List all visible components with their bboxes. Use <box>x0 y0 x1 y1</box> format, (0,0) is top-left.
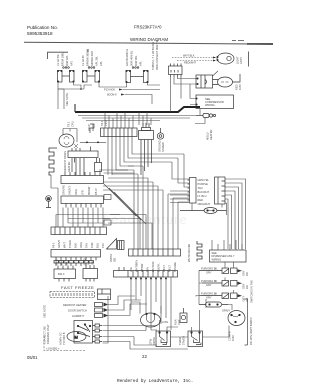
svg-text:6DON-6: 6DON-6 <box>107 93 117 97</box>
see dispenser assy wiring box <box>210 250 247 262</box>
svg-text:SEE NOTE: SEE NOTE <box>65 93 69 106</box>
svg-text:T8.1: T8.1 <box>67 121 71 127</box>
header publication text <box>27 25 58 36</box>
dome lamp assembly <box>217 53 234 64</box>
svg-text:WHTR DRIVER: WHTR DRIVER <box>187 244 191 262</box>
svg-text:BF5M 10BL: BF5M 10BL <box>61 52 65 66</box>
diagram corner bracket top-left <box>48 49 89 59</box>
vertical text SEE NOTE left of bus <box>65 93 69 106</box>
defrost heater label <box>63 151 71 172</box>
connector block B <box>139 123 154 175</box>
svg-text:B11 F: B11 F <box>58 272 65 276</box>
wire bundle strips to right column <box>108 137 184 176</box>
svg-text:ASSY: ASSY <box>239 57 243 64</box>
humidity control relay box <box>98 289 111 300</box>
control board box 2 labels <box>83 258 95 264</box>
lamp L1 labels <box>56 52 74 66</box>
svg-text:ORG/WHT: ORG/WHT <box>198 202 211 206</box>
svg-text:PUR: PUR <box>90 242 94 248</box>
strip C pin labels <box>62 185 99 195</box>
compressor ellipse <box>228 311 245 326</box>
wires bus down to connector strip A <box>105 112 151 128</box>
svg-text:5995353918: 5995353918 <box>27 31 53 36</box>
svg-text:J5/P61: J5/P61 <box>109 253 113 262</box>
svg-text:RD: RD <box>245 285 249 289</box>
svg-text:HELP: HELP <box>87 124 91 131</box>
wire color labels <box>198 178 211 206</box>
small relay box mid <box>95 158 102 172</box>
run capacitor <box>180 308 187 323</box>
defrost heater row <box>63 303 108 308</box>
svg-text:B RD: B RD <box>55 259 59 265</box>
svg-text:RUN: RUN <box>174 319 178 325</box>
svg-text:CPU: CPU <box>71 121 75 127</box>
connector strip A <box>101 128 138 137</box>
fuse oval F1 <box>180 208 227 214</box>
triangle connector P13 <box>107 239 125 250</box>
lamp L2 labels <box>81 48 103 66</box>
see compressor wiring box <box>196 95 234 109</box>
diagonal harness wires <box>104 184 146 224</box>
svg-text:BK: BK <box>65 261 69 265</box>
dispenser box text <box>212 251 235 261</box>
freezer control vertical note <box>59 332 67 345</box>
svg-text:Rendered by LeadVenture, Inc.: Rendered by LeadVenture, Inc. <box>117 379 193 384</box>
svg-text:BK: BK <box>91 261 95 265</box>
svg-text:JYE: JYE <box>129 267 133 272</box>
svg-text:P13-NO6: P13-NO6 <box>104 88 115 92</box>
humidity row <box>72 314 108 319</box>
strip G2 pin labels <box>129 260 177 272</box>
triangle connector label <box>109 253 117 262</box>
thermal fuse oval <box>199 302 228 307</box>
left margin vertical note <box>43 324 51 344</box>
door switch row 3 <box>201 292 249 302</box>
svg-text:APL: APL <box>99 61 103 66</box>
harness connector strip left <box>188 178 197 204</box>
nested loop wires right side <box>225 179 246 249</box>
crossing horizontals to right bundle <box>103 215 152 250</box>
mold heater plug <box>196 114 216 118</box>
LED indicator oval <box>213 74 241 87</box>
svg-text:YO 5MO B: YO 5MO B <box>62 332 66 345</box>
svg-text:DEFROST HEATER: DEFROST HEATER <box>63 303 87 307</box>
svg-text:WH: WH <box>60 261 64 265</box>
svg-text:SWITCHES IN THE: SWITCHES IN THE <box>250 280 254 303</box>
svg-text:GTW: GTW <box>149 338 153 345</box>
svg-text:GRY: GRY <box>206 296 212 300</box>
wire lamp L1/L2 bottoms to junction <box>58 83 160 90</box>
svg-text:GRY: GRY <box>242 270 246 276</box>
svg-text:CL 3A 60: CL 3A 60 <box>81 55 85 66</box>
harness connector strip right <box>215 177 226 204</box>
wires strip C to center bundle <box>99 170 134 173</box>
lamp L2 freezer light socket <box>82 67 99 83</box>
svg-text:115V: 115V <box>238 84 242 90</box>
bottom right vertical note <box>249 317 253 345</box>
wires to compressor box <box>190 84 200 115</box>
vertical bundle center feeding strip G2 <box>103 166 189 249</box>
ground lug label <box>158 140 166 152</box>
svg-text:GRN/YEL: GRN/YEL <box>198 178 210 182</box>
wires into left label strip <box>170 154 189 203</box>
svg-text:Publication No.: Publication No. <box>27 25 58 30</box>
relay R1 box <box>156 331 171 347</box>
svg-text:LOW: LOW <box>162 320 168 324</box>
connector strip C <box>61 172 104 184</box>
svg-text:ORG: ORG <box>79 242 83 248</box>
svg-text:PUR/ORG BK: PUR/ORG BK <box>201 279 218 283</box>
svg-text:AOWN OC: AOWN OC <box>59 332 63 345</box>
defrost heater zigzag <box>49 148 57 175</box>
svg-text:115V: 115V <box>231 335 235 341</box>
door switch row 1 <box>199 267 249 277</box>
freezer fan motor ellipse <box>67 332 86 342</box>
door switch row link wires <box>199 271 202 296</box>
thermostat step wire <box>90 124 94 133</box>
strip E pin labels <box>52 240 106 248</box>
bracket right of dome lamp <box>248 52 250 67</box>
svg-text:HEATER: HEATER <box>209 130 213 140</box>
see compressor wiring text <box>205 97 224 107</box>
svg-text:T8.1: T8.1 <box>100 120 104 126</box>
label P13-NO arrows <box>104 88 117 97</box>
svg-text:PB LT: PB LT <box>162 265 166 272</box>
wires into relay K1 <box>171 71 219 112</box>
big terminal strip E <box>51 227 107 235</box>
dashed wires to dome lamp <box>172 58 216 61</box>
svg-text:FAST FREEZE: FAST FREEZE <box>61 285 94 290</box>
svg-text:CL 3A 5M: CL 3A 5M <box>56 55 60 66</box>
svg-text:GRN/Y: GRN/Y <box>222 309 230 313</box>
condenser fan motor <box>141 313 161 327</box>
svg-text:BLK/WHT: BLK/WHT <box>198 190 210 194</box>
svg-text:GRN/Y: GRN/Y <box>57 240 61 248</box>
svg-text:BF60W 36DBL: BF60W 36DBL <box>86 48 90 66</box>
svg-text:RD: RD <box>245 272 249 276</box>
main power bus bar <box>75 107 200 112</box>
door switch row <box>68 308 108 313</box>
svg-text:RD 115V JRWT 63WPC: RD 115V JRWT 63WPC <box>249 317 253 345</box>
ice maker heater zigzag <box>197 241 202 262</box>
compressor labels <box>228 331 236 341</box>
freezer control box <box>74 321 93 344</box>
svg-text:CAP: CAP <box>177 319 181 325</box>
svg-text:FB LT: FB LT <box>94 188 98 195</box>
svg-text:JTR: JTR <box>81 190 85 195</box>
svg-text:APL: APL <box>139 61 143 66</box>
svg-text:WIRING DIAGRAM: WIRING DIAGRAM <box>130 37 168 42</box>
svg-text:P RED: P RED <box>68 240 72 248</box>
svg-text:HUMIDITY: HUMIDITY <box>72 314 85 318</box>
bottom interconnect wires <box>103 296 233 349</box>
fast freeze ticked strip <box>50 292 95 298</box>
svg-text:40W 36L: 40W 36L <box>134 55 138 66</box>
svg-text:WIRING: WIRING <box>212 257 222 261</box>
junction dot A <box>80 88 82 90</box>
wire below left label strip <box>192 203 222 211</box>
relay box K1 <box>196 75 213 88</box>
svg-text:22: 22 <box>142 354 147 359</box>
svg-text:HEATER: HEATER <box>67 162 71 172</box>
LED label <box>235 84 243 90</box>
right bracket bottom <box>245 299 248 345</box>
svg-text:TD/RD: TD/RD <box>178 337 182 345</box>
svg-text:GRY: GRY <box>206 271 212 275</box>
svg-text:DEFROST DRAIN: DEFROST DRAIN <box>63 151 67 172</box>
lamp L1 freezer light socket <box>57 67 74 83</box>
svg-text:A60WD 40M: A60WD 40M <box>90 51 94 66</box>
svg-text:DOOR SWITCH: DOOR SWITCH <box>68 309 87 313</box>
ice maker label <box>187 244 191 262</box>
header rule <box>24 42 273 44</box>
svg-text:WH: WH <box>87 260 91 264</box>
evap fan terminal box <box>68 144 98 175</box>
bottom dashed rail <box>66 350 86 352</box>
control board box 1 <box>54 266 76 282</box>
terminal strip H <box>114 267 178 279</box>
door switches label <box>250 280 254 303</box>
relay R2 label <box>178 336 186 345</box>
label above strip A <box>100 120 108 126</box>
svg-text:PUR/ORG BK: PUR/ORG BK <box>201 292 218 296</box>
svg-text:APL 36L: APL 36L <box>95 56 99 66</box>
terminal strip F <box>51 250 101 267</box>
svg-text:2B1: 2B1 <box>113 257 117 262</box>
mold heater drop wire <box>195 118 205 124</box>
svg-text:G: G <box>47 196 50 201</box>
relay R2 box <box>188 331 203 347</box>
svg-text:WIRING: WIRING <box>205 103 215 107</box>
svg-text:GRN/YE: GRN/YE <box>62 185 66 195</box>
run capacitor label <box>174 319 182 325</box>
svg-text:LIGHT: LIGHT <box>236 56 240 64</box>
svg-text:3A0 BL3DB 3L: 3A0 BL3DB 3L <box>125 48 129 66</box>
evap fan motor circle <box>59 134 74 147</box>
control board box 1 labels <box>55 259 69 265</box>
svg-text:GROUND: GROUND <box>158 140 162 152</box>
svg-text:+1GA2B1-+: +1GA2B1-+ <box>46 347 60 351</box>
wires strip H down <box>131 277 171 330</box>
svg-text:LT. BLU: LT. BLU <box>198 194 207 198</box>
svg-text:CPU: CPU <box>104 120 108 126</box>
wires from dispenser rows down <box>196 262 234 308</box>
svg-text:RED: RED <box>235 84 239 90</box>
svg-text:RED/WHT: RED/WHT <box>184 61 197 65</box>
lamp L3 fresh food light socket <box>126 67 148 83</box>
bottom-left dashed corner <box>44 336 66 351</box>
svg-text:B RD: B RD <box>83 258 87 264</box>
relay R1 label <box>149 337 157 345</box>
wires strips CD down to big strip E <box>56 188 120 227</box>
bus parallel feeder wires <box>78 116 196 121</box>
arrow marks on dashed wires <box>213 57 216 62</box>
svg-text:GRY: GRY <box>242 283 246 289</box>
ground symbol G <box>46 196 52 208</box>
svg-text:WHT: WHT <box>63 242 67 248</box>
svg-text:SHUNT: SHUNT <box>68 186 72 195</box>
freezer control pin connectors <box>93 324 103 343</box>
svg-text:SCREW: SCREW <box>161 142 165 152</box>
svg-text:RD: RD <box>245 298 249 302</box>
svg-text:BLK: BLK <box>74 243 78 248</box>
wire from label arrows right <box>123 90 160 105</box>
svg-text:AP1: AP1 <box>70 61 74 66</box>
svg-text:RED: RED <box>198 198 204 202</box>
svg-text:DR/YE: DR/YE <box>152 337 156 345</box>
svg-text:PUR/ORG BK: PUR/ORG BK <box>201 267 218 271</box>
svg-text:GRY: GRY <box>206 283 212 287</box>
wire from junction down to bus <box>63 89 65 109</box>
connector CONN top labels <box>151 39 159 70</box>
svg-text:40W APL: 40W APL <box>65 55 69 66</box>
svg-text:TAN: TAN <box>198 186 203 190</box>
svg-text:SEE NOTE: SEE NOTE <box>43 305 47 318</box>
wires from arrow rows staircase right <box>103 296 148 343</box>
svg-text:TAN: TAN <box>85 243 89 248</box>
svg-text:3WD CONNECT 36/R TW: 3WD CONNECT 36/R TW <box>155 39 159 70</box>
svg-text:ORG: ORG <box>74 189 78 195</box>
svg-text:PURPLE: PURPLE <box>198 182 209 186</box>
svg-text:30/R 40M BL: 30/R 40M BL <box>130 50 134 66</box>
svg-text:COMPR: COMPR <box>228 331 232 341</box>
svg-text:WHT BLK: WHT BLK <box>183 54 195 58</box>
svg-text:TOBKS L T L LB 60HSH: TOBKS L T L LB 60HSH <box>151 42 155 70</box>
svg-text:MRDW: MRDW <box>87 186 91 195</box>
svg-text:DISPL: DISPL <box>91 123 95 131</box>
note text left margin upper <box>43 305 47 318</box>
wires into dispenser box top <box>212 240 242 250</box>
svg-text:FRS23KF7A*0: FRS23KF7A*0 <box>134 25 162 30</box>
inline connector on wire run 1 <box>104 195 111 200</box>
svg-text:CONNECT 265: CONNECT 265 <box>43 326 47 344</box>
dome lamp label <box>236 56 244 64</box>
svg-text:P6-1: P6-1 <box>52 242 56 248</box>
inline connector on wire run 2 <box>104 220 111 225</box>
svg-text:GRY: GRY <box>242 296 246 302</box>
svg-text:MOLD: MOLD <box>206 132 210 140</box>
svg-text:M: M <box>75 335 78 340</box>
svg-text:TAN: TAN <box>146 267 150 272</box>
lamp L3 labels <box>125 48 143 66</box>
svg-text:BLU: BLU <box>96 243 100 248</box>
svg-text:P13: P13 <box>101 243 105 248</box>
wire from zigzag bottom <box>51 175 58 188</box>
svg-text:FREEZER ONLY: FREEZER ONLY <box>46 324 50 344</box>
evap fan label <box>67 121 96 131</box>
door switch row 2 <box>201 279 249 289</box>
control board box 2 <box>83 265 98 282</box>
ground lug circle <box>157 128 163 139</box>
connector strip D <box>61 196 104 208</box>
svg-text:05/01: 05/01 <box>27 355 38 360</box>
long terminal strip G2 <box>129 249 181 256</box>
connector block J1 <box>169 64 183 78</box>
mold heater label <box>206 130 214 140</box>
